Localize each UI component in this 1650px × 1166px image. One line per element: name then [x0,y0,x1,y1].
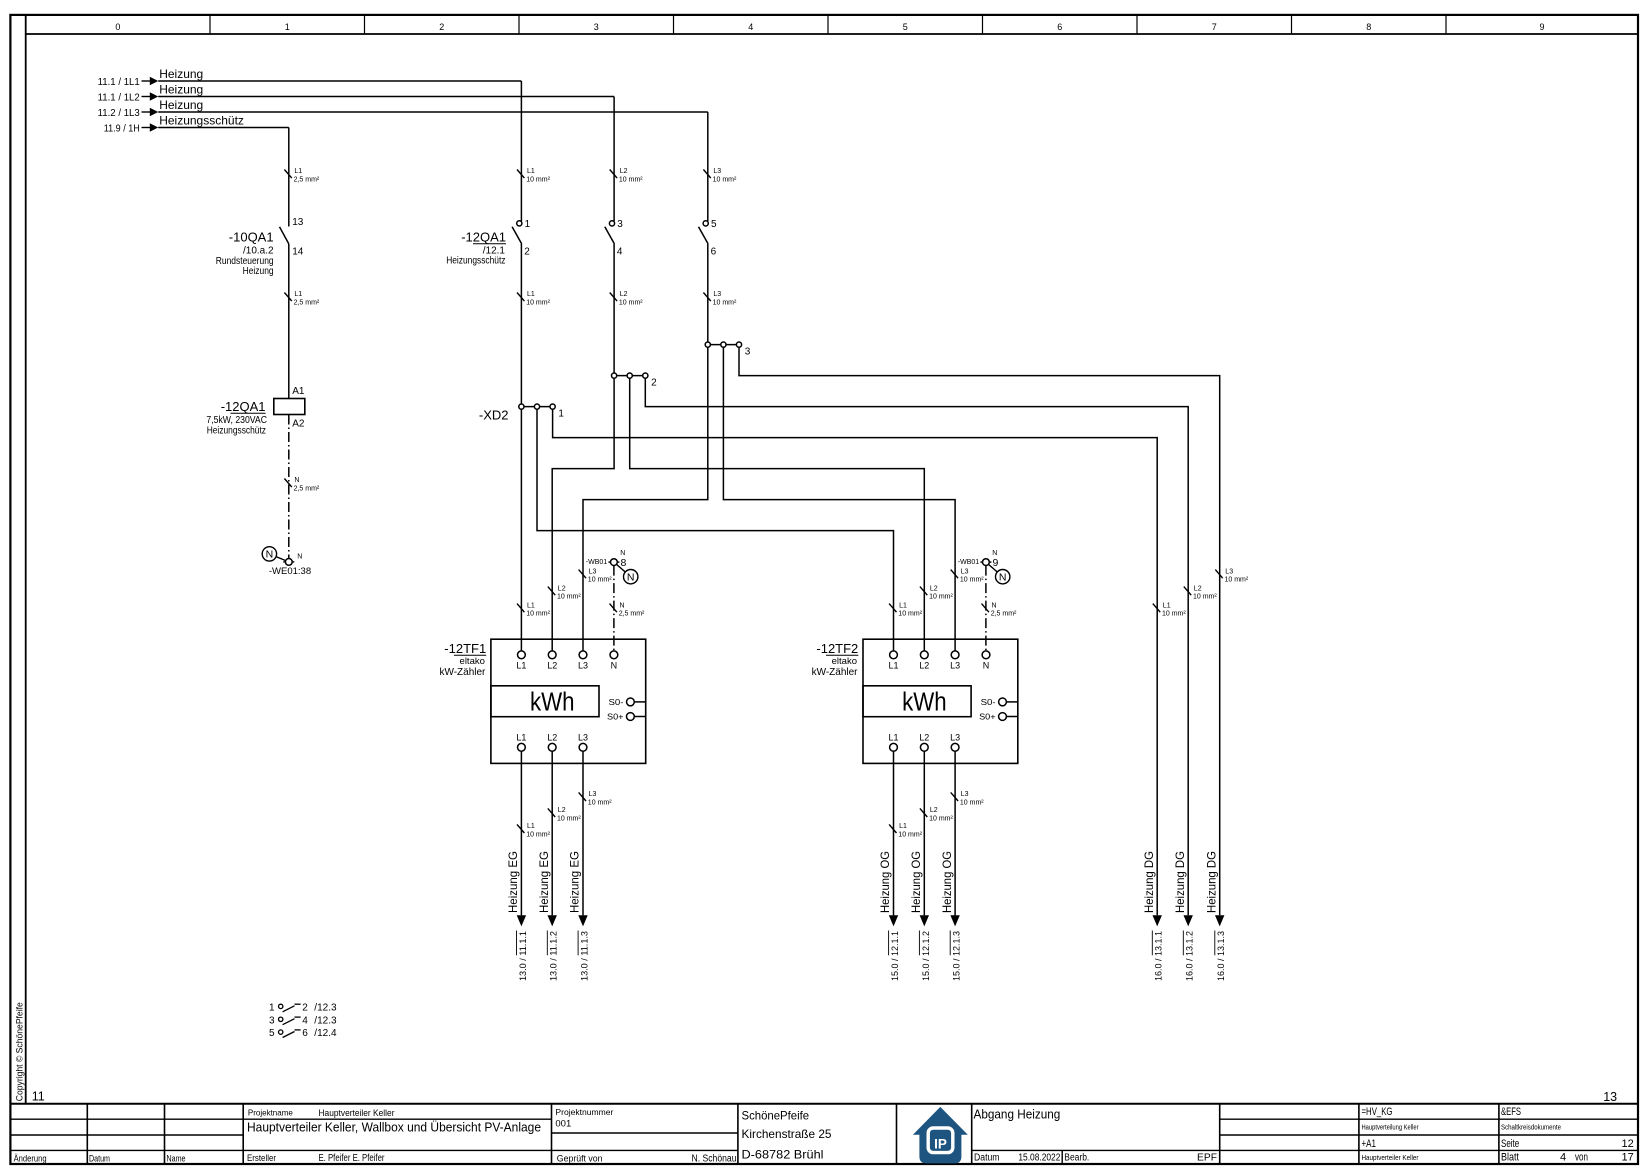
svg-text:3: 3 [269,1015,275,1026]
svg-text:Name: Name [167,1154,186,1164]
wire 14 to coil A1 [288,244,290,399]
logo house IP [913,1107,968,1164]
svg-text:SchönePfeife: SchönePfeife [742,1109,810,1123]
svg-text:Kirchenstraße 25: Kirchenstraße 25 [742,1127,832,1141]
svg-text:L1: L1 [1163,602,1171,609]
wire gauge L1 10mm2 upper [517,168,551,183]
svg-text:-XD2: -XD2 [479,408,509,423]
svg-text:L2: L2 [620,168,628,175]
svg-text:Schaltkreisdokumente: Schaltkreisdokumente [1501,1125,1561,1132]
feed arrow 11.2 / 1L3 -> Heizung [98,98,708,119]
wire Heizung horizontal y=96.5 [158,96,614,98]
wire gauge L3 10mm2 lower [703,291,737,306]
wire L1 XD2:1 to -12TF2 L1 [537,409,894,651]
svg-text:10 mm²: 10 mm² [1162,611,1186,618]
wire gauge L1 2,5mm2 upper [284,168,320,183]
wire gauge -12TF2 L1 10mm2 [889,602,923,617]
svg-text:Seite: Seite [1501,1138,1519,1150]
svg-text:15.0 / 12.1.2: 15.0 / 12.1.2 [921,931,932,981]
svg-text:10 mm²: 10 mm² [713,300,737,307]
svg-text:L3: L3 [950,732,960,742]
column header ticks [210,15,1446,34]
svg-text:L1: L1 [888,732,898,742]
svg-text:13.0 / 11.1.3: 13.0 / 11.1.3 [580,931,591,981]
svg-text:10 mm²: 10 mm² [619,177,643,184]
wire gauge N 2,5mm2 meter 9 [982,602,1018,617]
svg-text:4: 4 [302,1015,308,1026]
svg-text:IP: IP [934,1137,947,1152]
svg-text:11.1 / 1L1: 11.1 / 1L1 [98,76,140,88]
svg-text:17: 17 [1622,1152,1634,1164]
svg-text:S0-: S0- [609,698,624,707]
title block structure refs [1362,1106,1420,1162]
svg-text:10 mm²: 10 mm² [1225,577,1249,584]
svg-text:L3: L3 [578,732,588,742]
title block doc refs [1501,1106,1634,1163]
arrow Heizung DG 16.0 / 13.1.3 [1215,915,1224,926]
svg-text:L2: L2 [620,291,628,298]
svg-text:5: 5 [903,22,908,32]
svg-text:EPF: EPF [1197,1153,1217,1164]
svg-text:A2: A2 [292,419,305,430]
svg-text:10 mm²: 10 mm² [898,611,922,618]
arrow Heizung DG 16.0 / 13.1.2 [1184,915,1193,926]
svg-text:Änderung: Änderung [14,1154,47,1164]
svg-text:3: 3 [617,219,623,230]
wire gauge -12TF2 L2 10mm2 [920,585,954,600]
column header numbers 0-9 [115,22,1544,32]
svg-text:-12TF1: -12TF1 [444,641,486,656]
wire gauge Heizung DG L2 10mm2 [1184,585,1218,600]
svg-text:10 mm²: 10 mm² [526,611,550,618]
breaker contact -12QA1 1/2 [512,219,531,258]
wire gauge L2 10mm2 lower [610,291,644,306]
title block top line [10,1103,1638,1105]
wire L3 XD2:3 to -12TF2 L3 [723,347,955,651]
coil -12QA1 [206,386,304,436]
feed arrow 11.1 / 1L2 -> Heizung [98,83,615,104]
wire Heizung horizontal y=112.0 [158,111,708,113]
feed arrow 11.1 / 1L1 -> Heizung [98,67,522,88]
wire contact 6 down to -XD2 [707,244,709,345]
svg-text:Hauptverteiler Keller, Wallbox: Hauptverteiler Keller, Wallbox und Übers… [247,1120,541,1135]
svg-text:L3: L3 [961,791,969,798]
svg-text:11: 11 [32,1089,45,1103]
wire N dash-dot -WB01:8 to meter N [613,566,615,651]
arrow Heizung DG 16.0 / 13.1.1 [1153,915,1162,926]
svg-text:kWh: kWh [902,689,947,717]
svg-text:/12.3: /12.3 [314,1002,337,1013]
wire Heizung horizontal y=81.0 [158,80,521,82]
svg-text:=HV_KG: =HV_KG [1362,1106,1393,1118]
feed arrow 11.9 / 1H -> Heizungsschütz [104,114,289,135]
wire L1 vertical feed to contact 1 [520,81,522,221]
svg-text:N: N [620,602,625,609]
-12TF2 output terminals L1 L2 L3 [888,732,960,751]
svg-text:10 mm²: 10 mm² [588,800,612,807]
wire contact 2 down to -XD2 [520,244,522,407]
svg-text:S0+: S0+ [607,712,624,721]
svg-text:N: N [983,660,990,670]
svg-text:6: 6 [711,247,717,258]
svg-text:N: N [992,602,997,609]
svg-text:Datum: Datum [89,1154,110,1164]
svg-text:Hauptverteiler Keller: Hauptverteiler Keller [319,1108,395,1118]
svg-text:kW-Zähler: kW-Zähler [812,667,859,678]
svg-text:13: 13 [292,217,304,228]
wire gauge L3 10mm2 upper [703,168,737,183]
svg-text:/12.3: /12.3 [314,1015,337,1026]
svg-text:16.0 / 13.1.3: 16.0 / 13.1.3 [1216,931,1227,981]
svg-text:6: 6 [302,1028,308,1039]
wire gauge -12TF1 L2 10mm2 [548,585,582,600]
svg-text:N: N [999,571,1007,583]
breaker contact -12QA1 3/4 [605,219,624,258]
wire N dash-dot -WB01:9 to meter N [985,566,987,651]
svg-text:kWh: kWh [530,689,575,717]
svg-text:5: 5 [269,1028,275,1039]
contact mirror 3/4 /12.3 [269,1015,337,1026]
wire gauge Heizung DG L1 10mm2 [1153,602,1187,617]
svg-text:L3: L3 [713,168,721,175]
wire output Heizung OG 15.0 / 12.1.2 [923,751,925,915]
wire output Heizung EG 13.0 / 11.1.2 [551,751,553,915]
wire Heizungsschütz horizontal y=127.5 [158,127,289,129]
svg-text:L1: L1 [294,291,302,298]
svg-text:1: 1 [525,219,531,230]
svg-text:Heizung OG: Heizung OG [878,851,892,913]
svg-text:11.9 / 1H: 11.9 / 1H [104,122,140,134]
svg-text:10 mm²: 10 mm² [898,832,922,839]
svg-text:10 mm²: 10 mm² [588,577,612,584]
svg-text:L2: L2 [558,807,566,814]
node -WB01:8 N potential [586,550,638,584]
svg-text:11.1 / 1L2: 11.1 / 1L2 [98,91,140,103]
terminal -XD2:3 [705,342,751,357]
svg-text:8: 8 [621,557,627,569]
svg-text:von: von [1575,1152,1588,1164]
wire contact 4 down to -XD2 [613,244,615,376]
svg-text:L2: L2 [919,732,929,742]
label -12QA1 at contact 1 [446,230,506,267]
svg-text:Hauptverteiler Keller: Hauptverteiler Keller [1362,1155,1420,1162]
svg-text:L3: L3 [961,568,969,575]
svg-text:001: 001 [555,1119,571,1130]
svg-text:Bearb.: Bearb. [1064,1153,1089,1164]
wire gauge N 2,5mm2 meter 8 [610,602,646,617]
svg-text:N: N [992,550,997,557]
svg-text:N: N [620,550,625,557]
svg-text:10 mm²: 10 mm² [960,577,984,584]
column header strip bottom line [26,33,1638,35]
title block verticals [87,1104,1499,1164]
svg-text:L1: L1 [516,732,526,742]
svg-text:2: 2 [302,1002,308,1013]
title block row lines left section [10,1119,243,1150]
svg-text:9: 9 [1539,22,1544,32]
wire gauge Heizung DG L3 10mm2 [1215,568,1249,583]
svg-text:D-68782 Brühl: D-68782 Brühl [742,1148,824,1162]
svg-text:L1: L1 [899,602,907,609]
ref label 16.0 / 13.1.2 [1183,931,1195,982]
title block address [742,1109,832,1162]
svg-text:S0+: S0+ [979,712,996,721]
title block project name [247,1108,541,1164]
svg-text:13: 13 [1603,1090,1617,1104]
svg-text:Blatt: Blatt [1501,1152,1519,1164]
svg-text:Heizung DG: Heizung DG [1204,851,1218,913]
-12TF2 S0- terminal [981,698,1018,707]
wire gauge -12TF1 L1 10mm2 [517,602,551,617]
-12TF1 output terminals L1 L2 L3 [516,732,588,751]
svg-text:L1: L1 [527,168,535,175]
svg-text:L3: L3 [589,568,597,575]
svg-text:L3: L3 [578,660,588,670]
svg-text:4: 4 [748,22,753,32]
svg-text:2,5 mm²: 2,5 mm² [294,486,320,493]
wire gauge N 2,5mm2 [284,477,320,492]
svg-text:L1: L1 [527,602,535,609]
svg-text:+A1: +A1 [1362,1138,1377,1150]
svg-text:Heizungsschütz: Heizungsschütz [207,426,266,437]
svg-text:L2: L2 [930,585,938,592]
terminal -XD2:2 [612,373,658,388]
contact mirror 5/6 /12.4 [269,1028,337,1039]
svg-text:3: 3 [745,346,751,357]
svg-text:Heizung DG: Heizung DG [1142,851,1156,913]
svg-text:10 mm²: 10 mm² [619,300,643,307]
wire L2 XD2:2 to -12TF1 L2 [552,378,614,651]
ref label 13.0 / 11.1.3 [578,931,590,982]
ref label 16.0 / 13.1.3 [1215,931,1227,982]
arrow Heizung OG 15.0 / 12.1.3 [950,915,959,926]
svg-text:Heizungsschütz: Heizungsschütz [446,255,505,266]
left margin strip line [25,15,27,1104]
svg-text:kW-Zähler: kW-Zähler [439,667,486,678]
svg-text:/10.a.2: /10.a.2 [243,246,274,257]
svg-text:L1: L1 [516,660,526,670]
ref label 15.0 / 12.1.1 [889,931,901,982]
svg-text:10 mm²: 10 mm² [929,594,953,601]
svg-text:L3: L3 [589,791,597,798]
svg-text:14: 14 [292,247,304,258]
svg-text:2: 2 [651,377,657,388]
svg-text:13.0 / 11.1.2: 13.0 / 11.1.2 [549,931,560,981]
svg-text:-WB01: -WB01 [586,559,608,566]
svg-text:L1: L1 [294,168,302,175]
svg-text:Heizung OG: Heizung OG [909,851,923,913]
svg-text:10 mm²: 10 mm² [960,800,984,807]
arrow Heizung EG 13.0 / 11.1.1 [517,915,526,926]
svg-text:L2: L2 [558,585,566,592]
svg-text:Heizung: Heizung [243,266,274,277]
wire output Heizung EG 13.0 / 11.1.1 [520,751,522,915]
wire L2 XD2:2 to Heizung DG L2 [645,378,1188,915]
wire L1 XD2:1 to -12TF1 L1 [520,407,522,651]
ref label 15.0 / 12.1.3 [950,931,962,982]
svg-text:-12QA1: -12QA1 [221,399,266,414]
contact -10QA1 13/14 [216,217,304,277]
svg-text:E. Pfeifer E. Pfeifer: E. Pfeifer E. Pfeifer [319,1153,386,1164]
svg-text:Heizung EG: Heizung EG [506,851,520,913]
wire gauge L2 10mm2 upper [610,168,644,183]
svg-text:Hauptverteilung Keller: Hauptverteilung Keller [1362,1125,1420,1132]
wire L2 vertical feed to contact 3 [613,97,615,222]
svg-text:S0-: S0- [981,698,996,707]
svg-text:N: N [294,477,299,484]
svg-text:10 mm²: 10 mm² [929,816,953,823]
svg-text:L1: L1 [888,660,898,670]
svg-text:2,5 mm²: 2,5 mm² [294,300,320,307]
node -WE01:38 N potential [262,547,311,577]
svg-text:3: 3 [594,22,599,32]
svg-text:Heizung EG: Heizung EG [537,851,551,913]
svg-text:6: 6 [1057,22,1062,32]
wire L3 vertical feed to contact 5 [707,112,709,221]
arrow Heizung OG 15.0 / 12.1.2 [920,915,929,926]
svg-text:Ersteller: Ersteller [247,1153,276,1164]
label -12TF1 [439,641,486,678]
arrow Heizung EG 13.0 / 11.1.2 [548,915,557,926]
svg-text:11.2 / 1L3: 11.2 / 1L3 [98,107,140,119]
svg-text:L2: L2 [547,732,557,742]
svg-text:2: 2 [439,22,444,32]
svg-text:Abgang Heizung: Abgang Heizung [974,1108,1061,1122]
svg-text:13.0 / 11.1.1: 13.0 / 11.1.1 [518,931,529,981]
svg-text:8: 8 [1366,22,1371,32]
svg-text:A1: A1 [292,386,305,397]
svg-text:15.0 / 12.1.1: 15.0 / 12.1.1 [890,931,901,981]
wire output Heizung OG 15.0 / 12.1.3 [954,751,956,915]
svg-text:-12QA1: -12QA1 [461,230,506,245]
terminal -XD2:1 [519,404,565,419]
svg-text:L1: L1 [527,823,535,830]
-12TF1 S0+ terminal [607,712,646,721]
svg-text:12: 12 [1622,1138,1634,1150]
ref label 15.0 / 12.1.2 [919,931,931,982]
svg-text:1: 1 [558,408,564,419]
svg-text:L3: L3 [1225,568,1233,575]
kWh meter -12TF2 box [863,639,1018,763]
-12TF2 input terminals L1 L2 L3 N [888,651,989,670]
svg-text:/12.4: /12.4 [314,1028,337,1039]
svg-text:L2: L2 [930,807,938,814]
svg-text:15.08.2022: 15.08.2022 [1018,1153,1060,1164]
kWh meter -12TF1 box [491,639,646,763]
-12TF1 S0- terminal [609,698,646,707]
svg-text:10 mm²: 10 mm² [1193,594,1217,601]
contact mirror 1/2 /12.3 [269,1002,337,1013]
svg-text:1: 1 [269,1002,275,1013]
svg-text:16.0 / 13.1.2: 16.0 / 13.1.2 [1185,931,1196,981]
wire gauge L1 10mm2 lower [517,291,551,306]
wire gauge -12TF2 L3 10mm2 [951,568,985,583]
-12TF2 kWh display box [863,686,971,717]
node -WB01:9 N potential [958,550,1010,584]
title block row lines project section [243,1119,1638,1164]
wire gauge L1 2,5mm2 lower [284,291,320,306]
wire L3 XD2:3 to -12TF1 L3 [583,347,708,651]
ref label 16.0 / 13.1.1 [1152,931,1164,982]
svg-text:7,5kW, 230VAC: 7,5kW, 230VAC [206,415,267,426]
svg-text:-WB01: -WB01 [958,559,980,566]
svg-text:10 mm²: 10 mm² [526,300,550,307]
svg-text:N: N [627,571,635,583]
svg-text:N: N [297,554,302,561]
svg-text:Copyright © SchönePfeife: Copyright © SchönePfeife [14,1002,24,1101]
svg-text:2,5 mm²: 2,5 mm² [619,611,645,618]
ref label 13.0 / 11.1.2 [547,931,559,982]
svg-text:10 mm²: 10 mm² [557,594,581,601]
svg-text:Heizung: Heizung [159,83,203,97]
svg-text:Heizung OG: Heizung OG [940,851,954,913]
label -12TF2 [812,641,859,678]
svg-text:4: 4 [1560,1152,1566,1164]
svg-text:L1: L1 [899,823,907,830]
svg-text:L3: L3 [950,660,960,670]
svg-text:L2: L2 [1194,585,1202,592]
svg-text:Heizung EG: Heizung EG [568,851,582,913]
svg-text:L3: L3 [713,291,721,298]
svg-text:2,5 mm²: 2,5 mm² [991,611,1017,618]
svg-text:Datum: Datum [974,1153,1000,1164]
svg-text:L1: L1 [527,291,535,298]
svg-text:Heizung: Heizung [159,98,203,112]
svg-text:10 mm²: 10 mm² [557,816,581,823]
svg-text:0: 0 [115,22,120,32]
svg-text:1: 1 [285,22,290,32]
svg-text:N: N [611,660,618,670]
svg-text:2,5 mm²: 2,5 mm² [294,177,320,184]
svg-text:5: 5 [711,219,717,230]
svg-text:-12TF2: -12TF2 [816,641,858,656]
svg-text:2: 2 [524,247,530,258]
svg-text:L2: L2 [547,660,557,670]
arrow Heizung EG 13.0 / 11.1.3 [578,915,587,926]
wire output Heizung OG 15.0 / 12.1.1 [893,751,895,915]
title block texts left [14,1154,186,1164]
ref label 13.0 / 11.1.1 [517,931,529,982]
wire gauge -12TF1 L3 10mm2 [579,568,613,583]
svg-text:eltako: eltako [460,656,485,667]
svg-text:N. Schönau: N. Schönau [692,1154,737,1165]
title block project number [555,1108,736,1165]
wire output Heizung EG 13.0 / 11.1.3 [582,751,584,915]
svg-text:Projektnummer: Projektnummer [555,1108,613,1117]
svg-text:10 mm²: 10 mm² [526,177,550,184]
svg-text:Heizung DG: Heizung DG [1173,851,1187,913]
wire N dash-dot coil A2 to -WE01:38 [288,415,290,559]
svg-text:-WE01:38: -WE01:38 [269,566,311,577]
svg-text:7: 7 [1212,22,1217,32]
arrow Heizung OG 15.0 / 12.1.1 [889,915,898,926]
svg-text:N: N [266,549,274,561]
svg-text:Projektname: Projektname [248,1109,293,1118]
svg-text:10 mm²: 10 mm² [713,177,737,184]
svg-text:-10QA1: -10QA1 [229,230,274,245]
title block sheet name [974,1108,1218,1164]
-12TF2 S0+ terminal [979,712,1018,721]
svg-text:15.0 / 12.1.3: 15.0 / 12.1.3 [952,931,963,981]
svg-text:4: 4 [617,247,623,258]
svg-text:&EFS: &EFS [1501,1106,1521,1118]
svg-text:9: 9 [993,557,999,569]
svg-text:10 mm²: 10 mm² [526,832,550,839]
wire 1H vertical to -10QA1 [288,128,290,227]
-12TF1 input terminals L1 L2 L3 N [516,651,617,670]
wire L2 XD2:2 to -12TF2 L2 [630,378,925,651]
svg-text:L2: L2 [919,660,929,670]
